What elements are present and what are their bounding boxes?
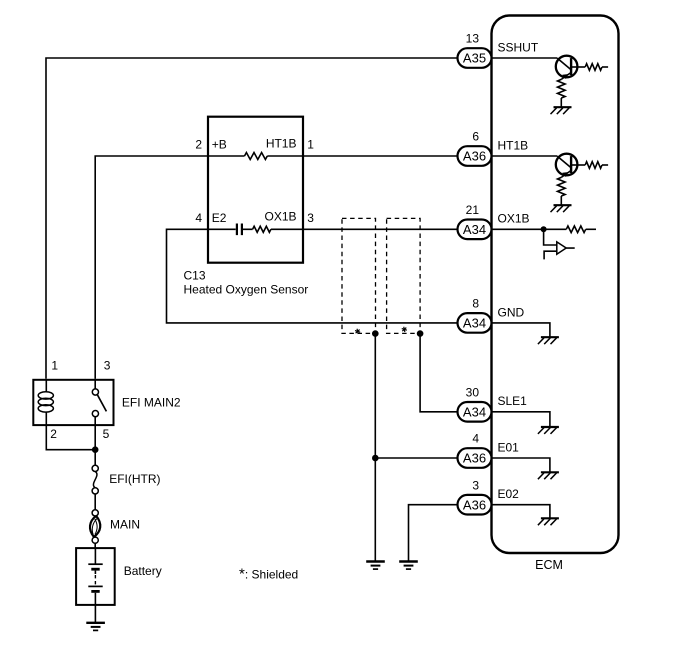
connector A36 pin 4 (E01) bbox=[458, 432, 520, 468]
svg-text:A36: A36 bbox=[463, 149, 486, 164]
connector A34 pin 21 (OX1B) bbox=[458, 203, 530, 239]
label EFI(HTR) bbox=[109, 472, 160, 486]
svg-text:SLE1: SLE1 bbox=[498, 394, 528, 408]
resistor (sensor element) bbox=[253, 226, 271, 232]
wire internal E01 bbox=[492, 458, 550, 472]
label EFI MAIN2 bbox=[122, 396, 181, 410]
capacitor (sensor element) bbox=[237, 224, 242, 236]
svg-text:A36: A36 bbox=[463, 497, 486, 512]
ground (E01 internal) bbox=[538, 472, 559, 479]
svg-text:6: 6 bbox=[472, 130, 479, 144]
ground (SLE1 internal) bbox=[538, 427, 559, 434]
relay pin labels bbox=[50, 359, 110, 442]
ground (battery) bbox=[86, 623, 105, 631]
wire internal HT1B bbox=[492, 155, 558, 157]
svg-text:21: 21 bbox=[466, 203, 480, 217]
transistor Q2 (HT1B driver) bbox=[551, 154, 609, 212]
fuse EFI(HTR) bbox=[92, 465, 98, 494]
svg-text:E2: E2 bbox=[212, 211, 227, 225]
svg-text:4: 4 bbox=[195, 211, 202, 225]
svg-text:8: 8 bbox=[472, 297, 479, 311]
wire relay pin2 to pin5 node bbox=[46, 425, 95, 450]
svg-text:GND: GND bbox=[498, 305, 525, 319]
svg-text:A34: A34 bbox=[463, 404, 486, 419]
junction shield left bbox=[372, 330, 379, 337]
wire op-amp lower stub bbox=[544, 251, 557, 259]
wire battery to ground bbox=[94, 605, 96, 622]
svg-text:Heated Oxygen Sensor: Heated Oxygen Sensor bbox=[184, 283, 309, 297]
svg-text:5: 5 bbox=[103, 427, 110, 441]
svg-text:3: 3 bbox=[104, 359, 111, 373]
shield asterisk right bbox=[402, 327, 407, 332]
svg-text:3: 3 bbox=[472, 478, 479, 492]
junction OX1B bbox=[541, 226, 547, 232]
svg-text:3: 3 bbox=[307, 211, 314, 225]
svg-text:*: Shielded: *: Shielded bbox=[239, 566, 298, 583]
wire internal SSHUT bbox=[492, 57, 558, 59]
wire internal E02 bbox=[492, 505, 550, 518]
svg-text:ECM: ECM bbox=[535, 558, 563, 572]
label Heated Oxygen Sensor bbox=[184, 283, 309, 297]
svg-text:13: 13 bbox=[466, 32, 480, 46]
wire heater bbox=[208, 155, 303, 157]
wire HT1B (sensor pin1 to A36) bbox=[303, 155, 458, 157]
svg-text:A34: A34 bbox=[463, 316, 486, 331]
wire shield drain right to SLE1 bbox=[420, 334, 457, 412]
wire OX1B (sensor pin3 to A34) bbox=[303, 228, 458, 230]
junction shield right bbox=[417, 330, 424, 337]
connector A34 pin 8 (GND) bbox=[458, 297, 525, 333]
svg-text:A34: A34 bbox=[463, 222, 486, 237]
wire sensor cell bbox=[208, 228, 303, 230]
svg-text:2: 2 bbox=[50, 427, 57, 441]
wire relay pin5 down bbox=[94, 425, 96, 465]
wire E2/GND (sensor pin4 to A34 GND) bbox=[167, 229, 458, 323]
wire SSHUT (battery feed to A35) bbox=[46, 58, 458, 379]
relay box EFI MAIN2 bbox=[33, 380, 113, 425]
relay coil bbox=[38, 380, 53, 425]
svg-text:HT1B: HT1B bbox=[266, 136, 297, 150]
connector A36 pin 6 (HT1B) bbox=[458, 130, 529, 166]
svg-text:HT1B: HT1B bbox=[498, 138, 529, 152]
sensor box C13 bbox=[208, 117, 303, 263]
svg-text:A36: A36 bbox=[463, 451, 486, 466]
shield dashed box right bbox=[387, 218, 421, 333]
fusible link MAIN bbox=[90, 510, 100, 544]
wire E01 bbox=[375, 457, 457, 459]
connector A35 pin 13 (SSHUT) bbox=[458, 32, 539, 68]
svg-text:SSHUT: SSHUT bbox=[498, 40, 539, 54]
svg-text:EFI MAIN2: EFI MAIN2 bbox=[122, 396, 181, 410]
svg-text:A35: A35 bbox=[463, 51, 486, 66]
note shielded bbox=[239, 566, 298, 583]
svg-text:E01: E01 bbox=[498, 440, 520, 454]
wire shield drain left bbox=[374, 334, 376, 561]
svg-text:OX1B: OX1B bbox=[498, 212, 530, 226]
battery box bbox=[76, 543, 115, 605]
svg-text:MAIN: MAIN bbox=[110, 518, 140, 532]
ground (E02) bbox=[399, 562, 418, 570]
resistor (OX1B input) bbox=[566, 226, 596, 233]
svg-text:1: 1 bbox=[307, 138, 314, 152]
op-amp U1 (comparator) bbox=[557, 242, 575, 254]
label C13 bbox=[184, 269, 206, 283]
wire internal SLE1 bbox=[492, 412, 550, 427]
relay switch bbox=[92, 379, 106, 425]
svg-text:EFI(HTR): EFI(HTR) bbox=[109, 472, 160, 486]
transistor Q1 (SSHUT driver) bbox=[551, 56, 609, 114]
shield dashed box left bbox=[342, 218, 376, 333]
svg-text:Battery: Battery bbox=[124, 564, 162, 578]
ground (E02 internal) bbox=[538, 518, 559, 525]
label MAIN bbox=[110, 518, 140, 532]
shield asterisk left bbox=[355, 329, 360, 334]
svg-text:OX1B: OX1B bbox=[264, 209, 296, 223]
ECM label bbox=[535, 558, 563, 572]
wire internal GND bbox=[492, 323, 550, 337]
wire +B (relay pin3 to sensor pin2) bbox=[95, 156, 208, 379]
ground (GND internal) bbox=[538, 337, 559, 344]
junction relay output bbox=[92, 446, 99, 453]
svg-text:30: 30 bbox=[466, 386, 480, 400]
wire op-amp input bbox=[544, 229, 557, 245]
svg-text:2: 2 bbox=[195, 138, 202, 152]
connector A36 pin 3 (E02) bbox=[458, 478, 520, 514]
pin labels sensor bbox=[195, 136, 314, 225]
resistor (heater) bbox=[245, 153, 268, 160]
svg-text:C13: C13 bbox=[184, 269, 206, 283]
wire fuse to link bbox=[94, 494, 96, 510]
wire E02 bbox=[409, 505, 458, 561]
junction E01 drain bbox=[372, 455, 379, 462]
battery cells bbox=[88, 548, 102, 605]
label Battery bbox=[124, 564, 162, 578]
wire internal OX1B bbox=[492, 228, 567, 230]
ground (shield drain) bbox=[366, 562, 385, 570]
connector A34 pin 30 (SLE1) bbox=[458, 386, 528, 422]
svg-text:E02: E02 bbox=[498, 487, 520, 501]
ECM box bbox=[492, 16, 619, 554]
svg-text:1: 1 bbox=[51, 359, 58, 373]
svg-text:4: 4 bbox=[472, 432, 479, 446]
svg-text:+B: +B bbox=[212, 138, 227, 152]
